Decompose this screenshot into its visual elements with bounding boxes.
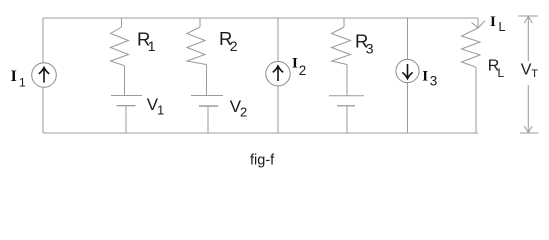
VT measure arrow top tick: [518, 15, 538, 17]
VT arrow lower segment: [524, 85, 532, 133]
svg-text:fig-f: fig-f: [250, 153, 275, 169]
resistor RL: [462, 28, 481, 67]
wire I3 bottom: [407, 83, 409, 133]
svg-text:I: I: [490, 14, 496, 30]
VT arrow upper segment: [524, 17, 532, 62]
bottom wire: [43, 132, 478, 134]
current source I2: [266, 61, 290, 85]
current source I3: [396, 59, 419, 82]
wire R2 to V2: [206, 65, 208, 96]
svg-text:2: 2: [240, 105, 247, 120]
battery (unlabeled): [329, 96, 364, 133]
resistor R3: [332, 27, 351, 65]
svg-text:1: 1: [148, 38, 156, 54]
svg-text:1: 1: [19, 76, 26, 90]
wire RL bottom: [475, 67, 477, 134]
wire I2 bottom: [277, 86, 279, 133]
svg-text:T: T: [531, 68, 538, 80]
svg-text:L: L: [498, 66, 505, 80]
wire stub R2 top: [199, 18, 201, 27]
top wire: [43, 17, 478, 19]
wire R3 to battery: [346, 65, 348, 96]
arrow IL (down into RL): [472, 21, 486, 28]
svg-text:I: I: [292, 56, 298, 72]
svg-text:V: V: [521, 62, 532, 79]
wire left lower: [42, 88, 44, 134]
current source I1: [32, 63, 57, 88]
svg-text:L: L: [499, 20, 506, 34]
resistor R1: [111, 27, 129, 66]
svg-text:2: 2: [230, 38, 238, 54]
svg-text:3: 3: [430, 74, 438, 89]
wire I2 top: [277, 18, 279, 62]
resistor R2: [187, 27, 206, 65]
wire I3 top: [407, 18, 409, 60]
wire stub R1 top: [121, 18, 123, 27]
svg-text:2: 2: [299, 63, 307, 78]
battery V1: [111, 96, 142, 134]
svg-text:1: 1: [157, 103, 164, 118]
wire stub R3 top: [343, 18, 345, 27]
wire RL corner: [477, 18, 479, 28]
wire left upper: [42, 18, 44, 63]
wire R1 to V1: [124, 66, 126, 96]
battery V2: [191, 96, 223, 134]
svg-text:I: I: [11, 68, 17, 85]
svg-text:3: 3: [366, 40, 374, 56]
VT measure arrow bottom tick: [520, 132, 538, 134]
svg-text:I: I: [422, 69, 428, 85]
